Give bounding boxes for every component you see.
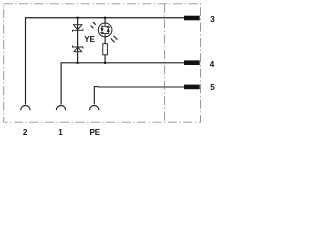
svg-text:YE: YE	[84, 35, 95, 44]
svg-text:5: 5	[210, 83, 215, 92]
svg-text:2: 2	[23, 128, 28, 137]
svg-text:3: 3	[210, 15, 215, 24]
svg-text:4: 4	[210, 60, 215, 69]
svg-text:1: 1	[58, 128, 63, 137]
svg-text:PE: PE	[89, 128, 100, 137]
